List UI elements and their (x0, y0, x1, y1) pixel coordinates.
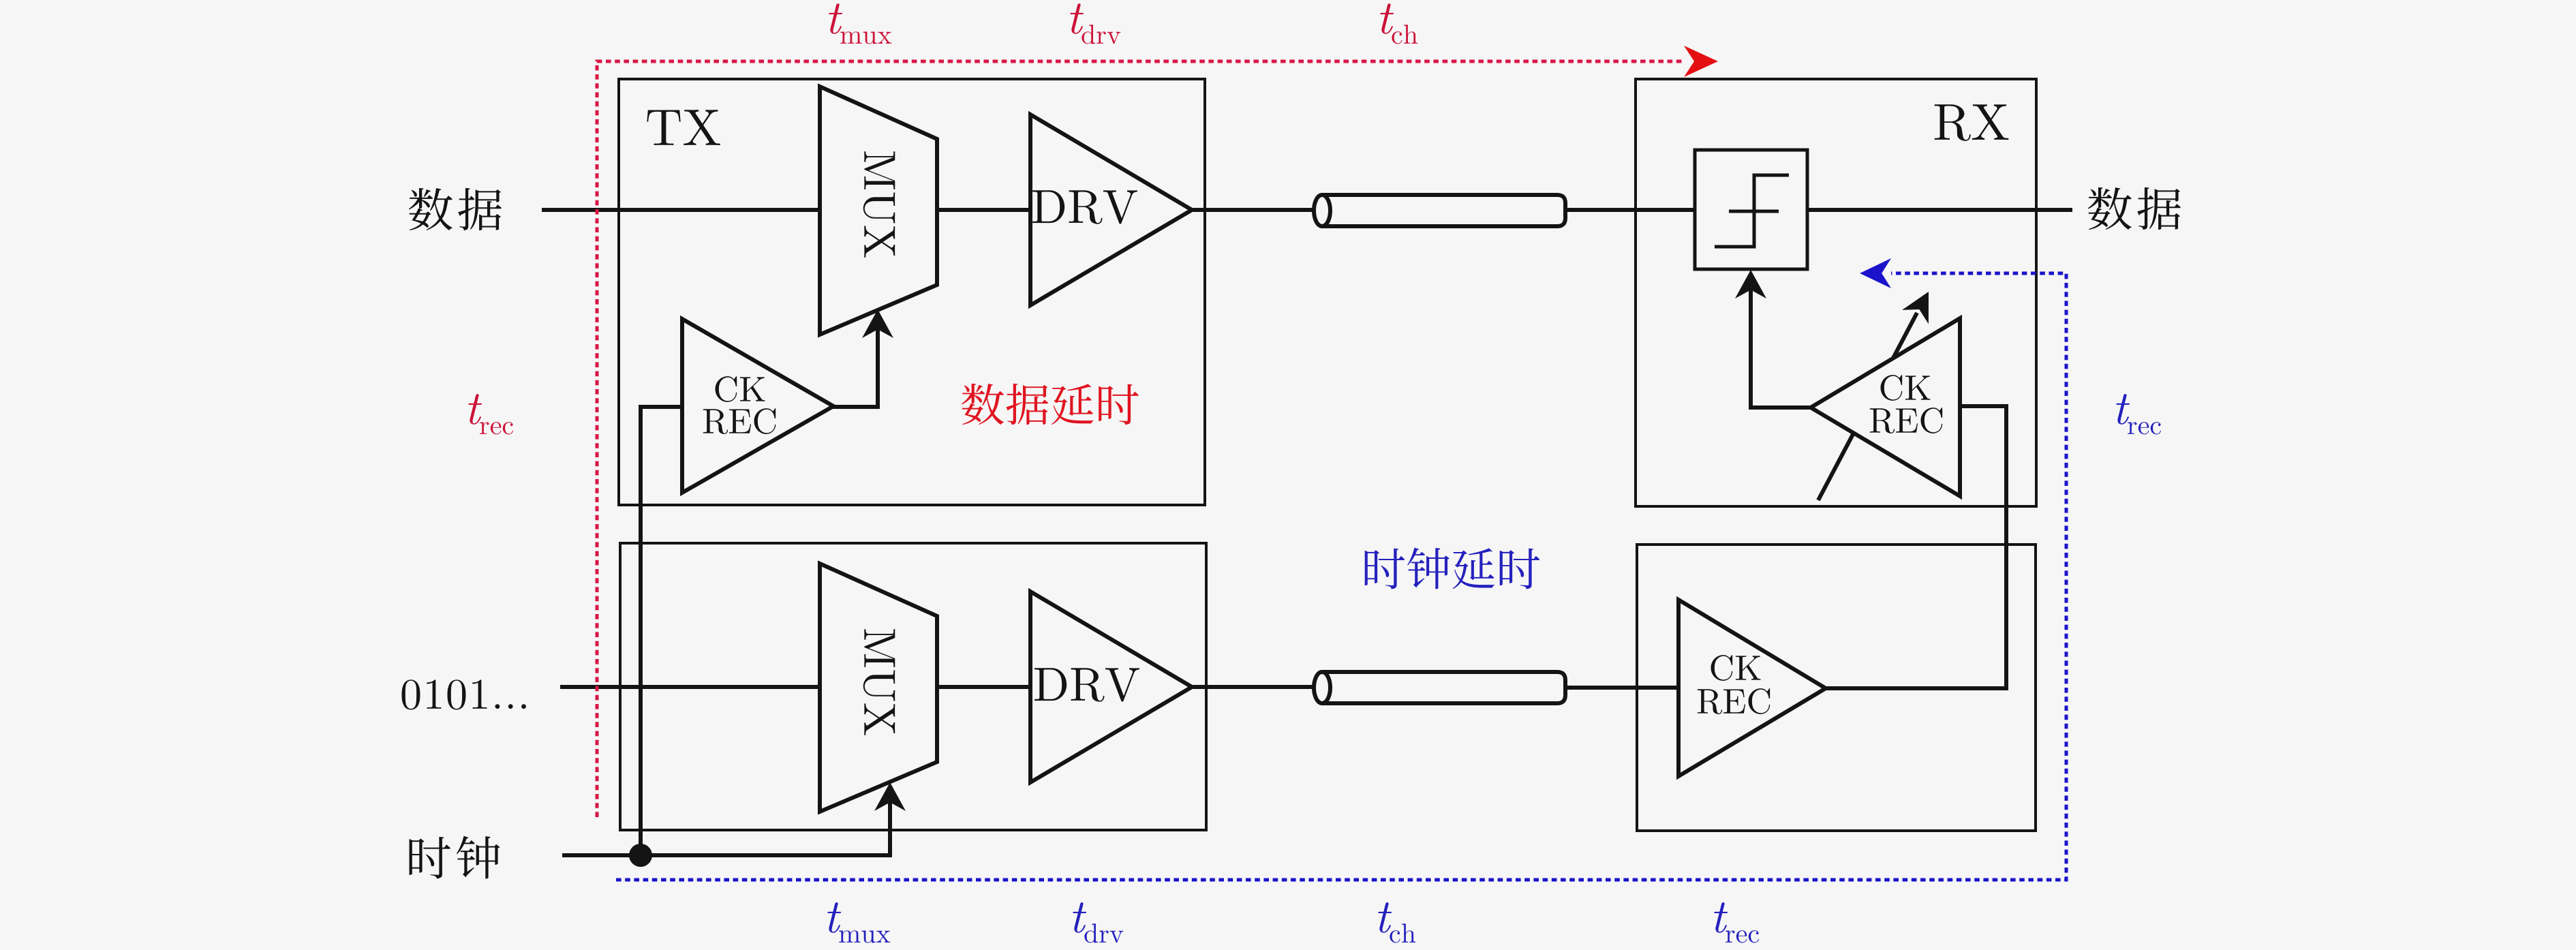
slicer hysteresis icon (1715, 175, 1789, 247)
TX data block box (619, 79, 1205, 505)
mux1 trapezoid (820, 87, 937, 335)
mux2 trapezoid (820, 564, 937, 812)
wire: clock node up to ckrec1 (641, 407, 684, 855)
wire: ckrec2 out to slicer clk (1751, 278, 1813, 408)
label: CK REC 2 (1881, 375, 1931, 401)
RX clock block box (1637, 545, 2036, 831)
label: t_rec bottom (1714, 902, 1728, 933)
wire: drv1 to channel1 (1190, 208, 1319, 212)
arrow into mux2 (874, 782, 906, 811)
channel2 cylinder body (1322, 672, 1565, 703)
label: DRV 2 (1034, 668, 1139, 701)
wire: channel1 to slicer (1565, 208, 1697, 212)
label: t_mux top (829, 3, 842, 34)
label: MUX 2 (rotated) (863, 629, 895, 735)
drv1 triangle (1030, 114, 1192, 305)
arrow into slicer (1735, 270, 1766, 298)
wire: ckrec1 out to mux1 select (831, 318, 878, 407)
label: RX (1935, 104, 2009, 141)
label: DRV 1 (1032, 190, 1137, 224)
channel1 cylinder body (1322, 195, 1565, 226)
label: CK REC 1 (716, 376, 765, 402)
label: clock (410, 836, 500, 879)
blue dashed path (clock delay) (616, 273, 2066, 880)
label: data in (409, 188, 502, 230)
drv2 triangle (1030, 592, 1192, 782)
label: t_ch bottom (1378, 902, 1392, 933)
arrow into mux1 (862, 309, 893, 338)
red arrowhead (1684, 46, 1718, 77)
wire: 0101 in (560, 685, 822, 689)
ckrec3 triangle (RX lower) (1678, 600, 1826, 776)
label: t_drv bottom (1073, 902, 1086, 933)
label: t_drv top (1070, 3, 1084, 34)
label: MUX 1 (rotated) (863, 151, 895, 257)
red dashed path (data delay) (597, 61, 1682, 817)
wire: clock up to mux2 select (888, 791, 892, 855)
wire: data in (542, 208, 822, 212)
slicer box (1695, 150, 1807, 269)
label: t_mux bottom (827, 902, 841, 933)
RX data block box (1636, 79, 2036, 506)
label: TX (647, 110, 720, 145)
wire: ckrec3 out loop up to ckrec2 in (1824, 406, 2006, 688)
label: t_rec left (468, 394, 482, 425)
wire: clock in (562, 853, 892, 857)
wire: mux2 to drv2 (935, 685, 1032, 689)
blue arrowhead (1860, 258, 1891, 288)
wire: channel2 to ckrec3 (1565, 686, 1681, 690)
label: t_rec right (2116, 394, 2130, 425)
wire: drv2 to channel2 (1190, 685, 1319, 689)
adjustable arrow line through ckrec2 (1818, 313, 1917, 500)
wire: mux1 to drv1 (935, 208, 1032, 212)
node: clock junction (629, 844, 652, 867)
label: clock delay (blue) (1365, 548, 1540, 589)
wire: slicer to data out (1805, 208, 2072, 212)
label: 0101 (401, 679, 525, 709)
ckrec2 triangle (RX, points left) (1811, 318, 1960, 496)
ckrec1 triangle (682, 319, 833, 493)
TX clock block box (620, 543, 1206, 830)
label: t_ch top (1380, 3, 1394, 34)
channel1 left ellipse (1314, 195, 1330, 226)
label: data out (2088, 187, 2181, 230)
label: data delay (red) (962, 384, 1139, 425)
label: CK REC 3 (1711, 655, 1761, 681)
channel2 left ellipse (1314, 672, 1330, 703)
